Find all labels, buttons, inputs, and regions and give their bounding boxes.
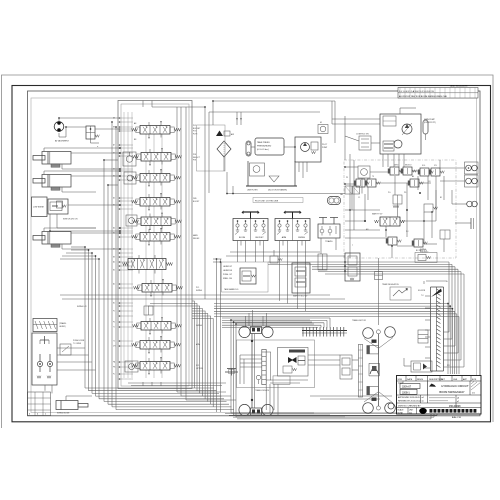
quick coupler pair C [467, 201, 473, 207]
title bottom row [397, 407, 482, 409]
svg-text:PRESSURIZED: PRESSURIZED [257, 146, 272, 148]
svg-text:LINE FILTER: LINE FILTER [247, 190, 258, 192]
title mid rows [397, 394, 482, 396]
svg-text:SCALE: SCALE [398, 408, 405, 411]
wire riser to travel motor [377, 258, 379, 325]
svg-text:SWING: SWING [196, 290, 203, 292]
quick coupler block B [465, 175, 479, 187]
svg-text:MAIN PUMP: MAIN PUMP [424, 118, 435, 121]
revision table [398, 88, 478, 99]
svg-text:PILOT: PILOT [322, 144, 328, 146]
svg-text:A8: A8 [134, 122, 136, 125]
svg-text:2 0 1 4 0 8 1 5 A 3 H 2 0 1 5: 2 0 1 4 0 8 1 5 A 3 H 2 0 1 5 0 3 0 2 B [399, 90, 434, 93]
svg-text:B8: B8 [113, 127, 115, 129]
svg-text:A3: A3 [113, 248, 115, 251]
svg-text:ARM: ARM [282, 236, 287, 239]
svg-text:BY-PASS V/V: BY-PASS V/V [416, 249, 428, 252]
wire boom cylinder lines [43, 148, 45, 152]
svg-text:A4: A4 [412, 175, 414, 178]
section holding valve [126, 215, 137, 226]
arm cylinder [42, 175, 71, 188]
pilot box option2 [125, 361, 138, 372]
svg-text:T: T [352, 245, 353, 247]
gear pump P3 [394, 140, 402, 148]
travel brake valve bottom [367, 386, 379, 394]
svg-text:A2: A2 [113, 261, 115, 264]
svg-text:(SUCTION STRAINER): (SUCTION STRAINER) [268, 189, 287, 192]
svg-text:A5: A5 [113, 197, 115, 200]
safety lever group [222, 262, 269, 292]
pilot pump P2 [301, 143, 310, 152]
svg-text:BOOM: BOOM [239, 237, 245, 239]
travel pedal valve [33, 319, 57, 332]
attachment motor M1 [54, 122, 64, 132]
svg-text:PUSH DOWN: PUSH DOWN [73, 340, 85, 342]
travel motor left top circles [239, 326, 250, 337]
svg-text:P1: P1 [113, 311, 115, 313]
valve row2 b [367, 179, 376, 187]
svg-text:C1: C1 [358, 197, 360, 199]
svg-text:REVIS: REVIS [417, 379, 424, 381]
svg-text:SYM: SYM [398, 379, 403, 381]
svg-text:TANK MANIFOLD: TANK MANIFOLD [224, 288, 239, 291]
counterbalance valve block [340, 355, 352, 379]
wire pilot bundle vertical left [84, 247, 86, 388]
svg-text:B1: B1 [113, 303, 115, 305]
wire bottom band extra [128, 382, 226, 384]
wire note to pump [251, 146, 255, 148]
travel supply unit boundary [237, 340, 315, 388]
travel spool bar B [266, 352, 270, 380]
wire pilot bundle horizontals [71, 246, 85, 248]
svg-text:FLTR: FLTR [193, 133, 198, 135]
regulator valve [383, 116, 396, 126]
svg-text:A6: A6 [113, 168, 115, 171]
svg-text:(0.3~0.9 bar): (0.3~0.9 bar) [257, 149, 269, 151]
valve bank ports [119, 117, 133, 380]
svg-text:B7: B7 [113, 153, 115, 155]
travel motor right assembly [363, 328, 374, 339]
svg-text:CHK: CHK [453, 379, 458, 381]
wire swing cylinder [65, 396, 67, 401]
travel prv left [37, 361, 42, 366]
wire band travel to comb [222, 317, 330, 319]
svg-text:A1: A1 [113, 283, 115, 286]
boom cylinder [42, 152, 71, 165]
svg-text:TIMER REGULATION: TIMER REGULATION [382, 283, 399, 286]
travel springs [37, 376, 41, 379]
travel box internal wires [240, 354, 262, 356]
orifice dots [419, 192, 421, 194]
svg-text:LOW NOISE: LOW NOISE [33, 207, 44, 209]
valve 4spd a [390, 167, 399, 175]
check valve block V-att [86, 126, 95, 139]
svg-text:LAND 450-00-00098: LAND 450-00-00098 [450, 85, 467, 88]
svg-text:NONE: NONE [398, 412, 404, 414]
svg-text:RELIEF: RELIEF [193, 238, 200, 240]
spool attachment [140, 126, 170, 135]
svg-text:4SPD: 4SPD [394, 165, 399, 167]
travel pedal unit small [318, 224, 340, 238]
section straight-travel [128, 259, 166, 270]
svg-text:T2: T2 [113, 341, 115, 343]
travel pilot valve box [32, 333, 57, 385]
valve bank inter-spool links [146, 134, 162, 378]
svg-text:T/J: T/J [421, 295, 423, 297]
spool boom1 [141, 153, 171, 162]
travel prv right [47, 361, 52, 366]
safety solenoid valve [240, 268, 256, 284]
svg-text:APP: APP [463, 378, 468, 381]
wire low noise to bank [68, 204, 120, 206]
svg-text:LEVER DN: LEVER DN [223, 270, 233, 272]
wire attachment motor to valve bank [58, 118, 60, 122]
svg-text:SWING L/R: SWING L/R [77, 306, 87, 308]
aux valve v318 [318, 254, 327, 270]
svg-text:ECN: ECN [472, 379, 477, 381]
svg-text:a4: a4 [422, 397, 424, 399]
filter enclosure box [197, 125, 226, 171]
svg-text:A3 CIRCUIT REV FOR BOOM SWING: A3 CIRCUIT REV FOR BOOM SWING DRWG CHK [399, 95, 448, 98]
turning joint arrow [431, 289, 442, 298]
valve bank bottom ticks [142, 382, 144, 386]
wires to couplers [440, 167, 465, 169]
comb manifold connector [302, 330, 347, 332]
travel gearbox bottom manifold [251, 408, 262, 415]
valve 4spd b [403, 167, 412, 175]
spool swing-priority [142, 284, 172, 293]
svg-text:B6: B6 [113, 176, 115, 178]
spool travel-left [140, 233, 170, 242]
inner border frame [28, 91, 481, 416]
pilot relief valve [311, 142, 318, 150]
wire pump suction pair [204, 107, 206, 299]
push valve small [60, 344, 71, 355]
svg-text:SELECT: SELECT [193, 157, 201, 159]
title block [397, 376, 482, 415]
remote control valve left (boom/bucket) [233, 219, 268, 241]
note box tank pressurizing [255, 138, 284, 155]
svg-text:PL: PL [113, 374, 115, 376]
pilot valve circle box 1 [123, 152, 136, 166]
wire bottom long bundle [225, 413, 440, 415]
wire long horizontals mid [150, 303, 192, 305]
wire joystick drops [237, 241, 239, 263]
wire pedal to bundle [57, 347, 85, 349]
gauge box [358, 166, 370, 178]
svg-text:T3: T3 [372, 176, 374, 178]
spool option [124, 172, 136, 184]
wire filter down to tank [223, 157, 225, 171]
valve bank internal pilot gallery lines [123, 112, 125, 378]
valve bank port labels [113, 117, 116, 376]
wire bundle bank-right nested [192, 301, 194, 388]
svg-text:PUSH : UP: PUSH : UP [223, 274, 233, 276]
svg-text:(TRAVEL: (TRAVEL [59, 322, 66, 325]
drain motor circle [388, 403, 394, 409]
wire pump feed pair [332, 118, 380, 120]
valve bottom a [388, 237, 397, 245]
svg-text:B2: B2 [113, 270, 115, 272]
svg-text:APPROVED 2015.08.05: APPROVED 2015.08.05 [398, 396, 421, 399]
svg-text:TANK PRESS: TANK PRESS [257, 141, 270, 144]
svg-text:PUMP: PUMP [322, 147, 328, 149]
wire right verticals to swivel [268, 261, 449, 263]
valve small relief [144, 306, 153, 315]
turning joint relief valve [390, 287, 411, 300]
svg-text:LEVER): LEVER) [59, 326, 66, 328]
svg-text:a6: a6 [457, 398, 459, 400]
svg-text:P2: P2 [113, 322, 115, 324]
pilot check above title [411, 361, 432, 372]
line filter F1 [217, 141, 231, 157]
valve bank top line [142, 101, 144, 108]
motor select box [318, 125, 328, 134]
wire pilot pump stubs [298, 162, 300, 172]
svg-text:SELECT: SELECT [405, 165, 412, 167]
title dwg number row [397, 402, 482, 404]
pilot line label strip [253, 198, 303, 203]
parts list table [28, 392, 51, 416]
valve bank center bypass lines [176, 107, 178, 383]
low noise selector box [32, 197, 48, 217]
spool travel-right [140, 362, 170, 371]
wire nested around turning joint [426, 281, 447, 282]
travel swash plate [369, 363, 379, 376]
travel brake valve top [367, 346, 379, 354]
svg-text:TRAVEL DEVICE: TRAVEL DEVICE [255, 389, 270, 392]
turning joint stubs [425, 295, 431, 297]
sheet scan edge [2, 75, 494, 428]
maker name blocks [430, 409, 477, 413]
wire bucket cylinder lines [43, 228, 45, 232]
wires right cluster horizontals [345, 166, 358, 168]
svg-text:ATTACHMENT: ATTACHMENT [55, 140, 70, 143]
svg-text:SWITCH (2P) O/S: SWITCH (2P) O/S [63, 219, 78, 221]
wire pump top [399, 108, 401, 114]
svg-text:SWING BOGIE: SWING BOGIE [57, 413, 70, 415]
wire check valve to bank [95, 128, 120, 130]
svg-text:B4: B4 [113, 233, 115, 235]
wires right cluster verticals [349, 154, 351, 258]
valve xbox pair [345, 186, 352, 194]
tank strainer circle [253, 166, 260, 173]
svg-text:REVISED BY 2015.03.02: REVISED BY 2015.03.02 [398, 401, 421, 403]
relief small v [393, 195, 402, 204]
outer border frame [12, 86, 491, 422]
main pump assembly box [380, 114, 421, 154]
svg-text:BUCKET: BUCKET [255, 237, 264, 239]
wire drops with arrowheads [236, 112, 238, 125]
gauge ports GA [328, 197, 341, 205]
maker logo [419, 408, 427, 414]
title block model cell [427, 381, 429, 395]
remote control valve right (arm/swing) [275, 219, 310, 241]
wires travel group risers [245, 316, 247, 327]
spool arm2 [140, 174, 170, 183]
control vv box [359, 136, 371, 150]
travel motor left bottom circles [239, 404, 250, 415]
travel motor right diagonals [364, 339, 378, 349]
spool travel-alarm [380, 217, 400, 226]
svg-text:DATE: DATE [407, 378, 413, 381]
air breather [216, 131, 223, 137]
valve row2 c [410, 179, 419, 187]
pump solenoid block [383, 141, 394, 151]
travel damper [44, 336, 46, 344]
bypass valve box [415, 253, 437, 263]
wire control to pump [371, 142, 380, 144]
spool arm1 [140, 341, 170, 350]
main control valve boundary [118, 101, 192, 389]
travel brake block [278, 348, 309, 377]
valve small mid2 [440, 230, 450, 239]
svg-text:LEVER UP: LEVER UP [223, 266, 233, 268]
svg-text:P3: P3 [346, 177, 348, 179]
shuttle valve small [270, 256, 278, 263]
valve small mid [424, 204, 433, 212]
travel pilot circle [256, 375, 260, 379]
turning joint swivel [430, 287, 432, 371]
two-speed solenoid block [292, 263, 310, 293]
svg-text:FREE : DN: FREE : DN [223, 278, 233, 280]
svg-text:mm: mm [409, 412, 412, 414]
svg-text:TRAVEL: TRAVEL [325, 240, 334, 243]
wire arm cylinder lines [43, 171, 45, 175]
svg-text:SOL: SOL [422, 165, 425, 167]
parking brake cylinder [358, 344, 362, 397]
wire below tank [227, 193, 345, 195]
wire travel lines vertical pair [216, 259, 218, 412]
svg-text:A4: A4 [113, 227, 115, 230]
svg-text:TO OPEN: TO OPEN [73, 343, 82, 345]
svg-text:320A-07: 320A-07 [402, 386, 412, 389]
coupler marks [470, 218, 472, 229]
title machine glyph [429, 384, 436, 387]
solenoid valve group boundary [344, 160, 456, 258]
svg-text:TRAVEL MOTOR: TRAVEL MOTOR [352, 319, 367, 322]
tank return triangle [269, 176, 279, 182]
tee fitting [225, 369, 238, 376]
check valve stack [418, 330, 428, 343]
svg-text:SWING: SWING [298, 237, 305, 239]
spool bucket [141, 217, 171, 226]
wire bank bypass tails [176, 383, 178, 392]
boom swing cylinder [56, 401, 78, 410]
svg-text:B1: B1 [440, 197, 442, 199]
valve row2 a [356, 179, 365, 187]
svg-text:B5: B5 [113, 205, 115, 207]
svg-text:T1: T1 [113, 327, 115, 329]
aux valve v348 [345, 253, 360, 281]
wire rcv crossing horizontals [230, 251, 320, 253]
svg-text:NO-SPIN: NO-SPIN [418, 290, 426, 292]
svg-text:BOOM SWING/GRAY: BOOM SWING/GRAY [439, 390, 465, 394]
travel center column [251, 334, 253, 409]
valve bottom b [414, 239, 423, 247]
tank bottom [246, 185, 297, 187]
pilot pump unit box [295, 137, 321, 162]
svg-text:SAFETY V/V: SAFETY V/V [372, 213, 383, 216]
svg-text:A8: A8 [113, 117, 115, 120]
svg-text:(K3V112DTP): (K3V112DTP) [424, 122, 436, 124]
travel sub box [273, 376, 290, 384]
svg-text:A7: A7 [113, 144, 115, 147]
svg-text:B8: B8 [134, 139, 136, 141]
accumulator right of pump [423, 120, 428, 134]
spool boom2 [140, 198, 170, 207]
accumulator capsule [246, 141, 251, 156]
inner margin frame [31, 98, 477, 413]
quick coupler block A [465, 162, 479, 174]
low noise solenoid valve V2 [48, 199, 68, 214]
main pump P1 [402, 124, 412, 134]
svg-text:BUCKET: BUCKET [193, 128, 201, 130]
wire band mid-right [214, 303, 448, 305]
svg-text:320B-1: 320B-1 [402, 391, 410, 394]
hydraulic tank [248, 161, 295, 186]
bucket cylinder [42, 232, 71, 245]
svg-text:a5: a5 [422, 401, 424, 403]
svg-text:MAIN: MAIN [193, 234, 198, 237]
svg-text:A3H-C10: A3H-C10 [452, 416, 462, 419]
wire top bypass [213, 100, 335, 102]
svg-text:HYDRAULIC CIRCUIT: HYDRAULIC CIRCUIT [441, 384, 469, 388]
svg-text:CONTROL V/V: CONTROL V/V [356, 134, 369, 136]
travel spool bar A [262, 350, 266, 385]
svg-text:BOOST: BOOST [193, 201, 200, 203]
wires around left travel group [230, 320, 232, 413]
svg-text:PILOT LINE : DOTTED LINE: PILOT LINE : DOTTED LINE [255, 200, 279, 202]
valve pair right [420, 168, 429, 176]
spool swing [141, 322, 171, 331]
travel gearbox top manifold [251, 327, 262, 334]
svg-text:B3: B3 [113, 257, 115, 259]
